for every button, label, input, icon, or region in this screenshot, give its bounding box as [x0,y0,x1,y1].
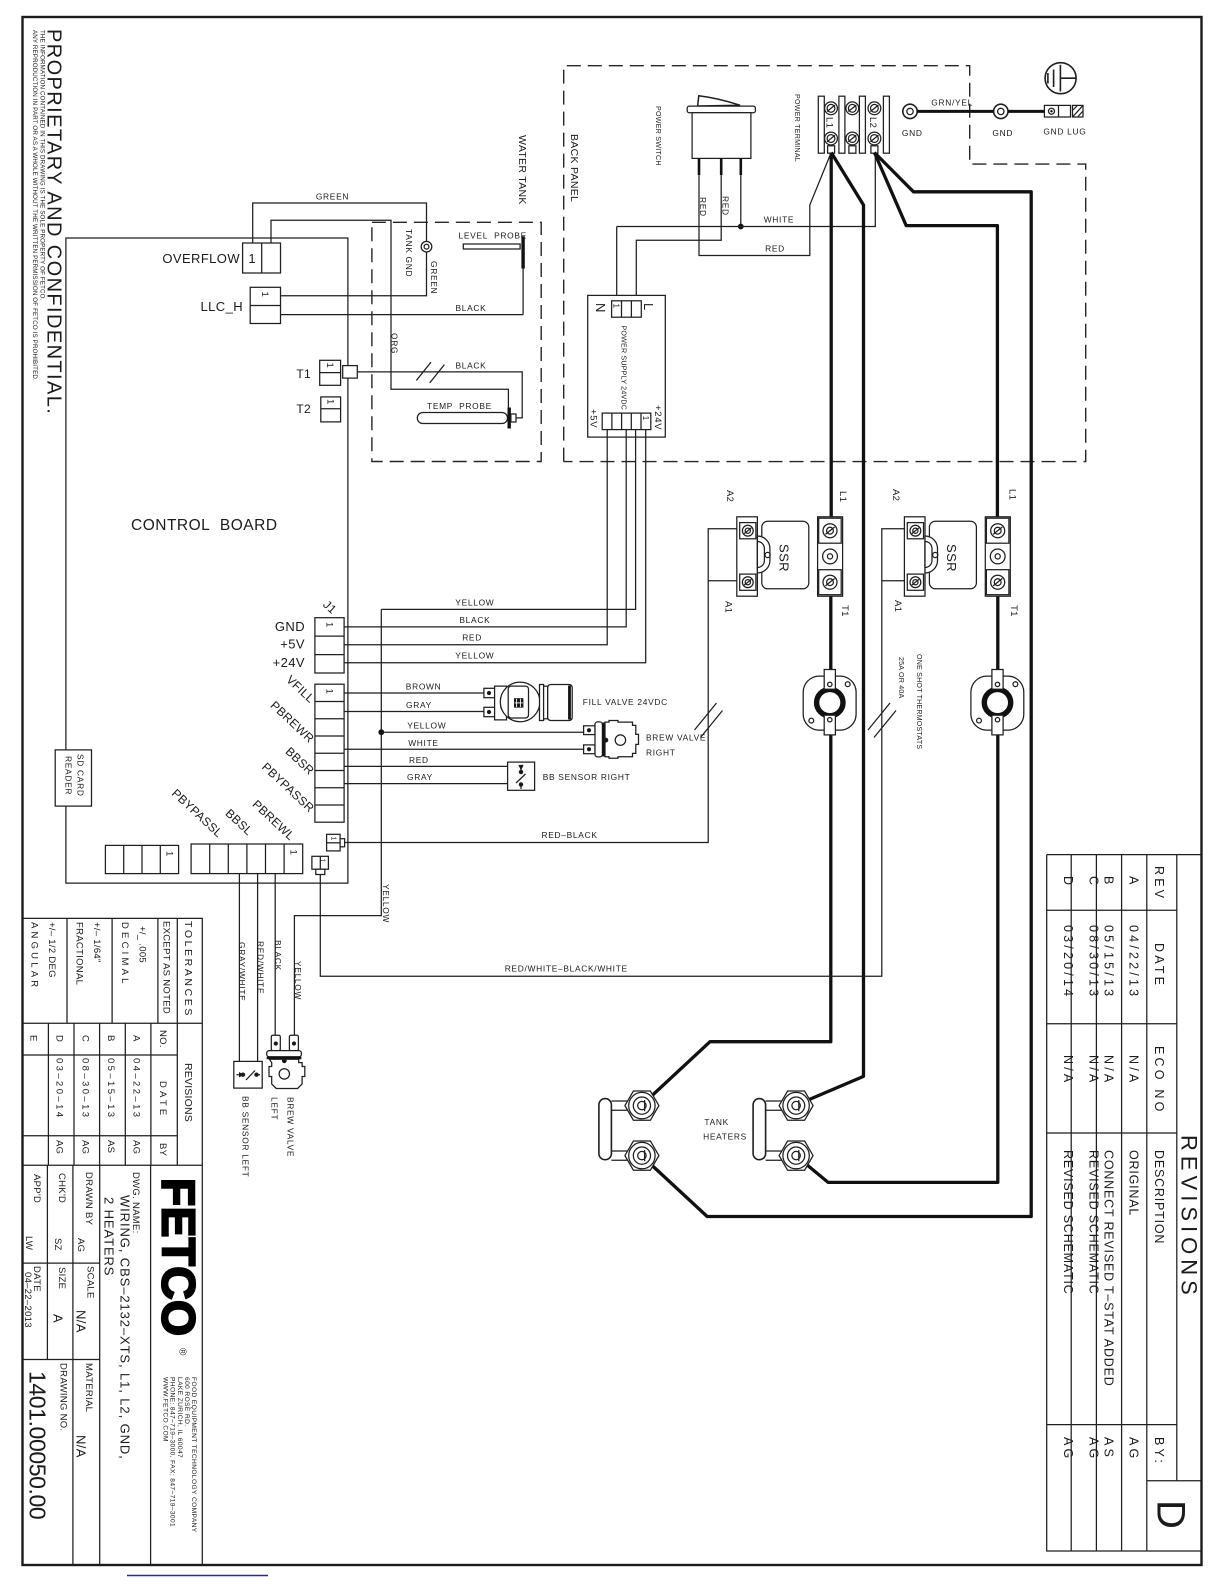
svg-text:BREW VALVE: BREW VALVE [286,1097,296,1157]
svg-text:OVERFLOW: OVERFLOW [162,251,240,266]
svg-text:RED–BLACK: RED–BLACK [542,830,598,840]
svg-text:TOLERANCES: TOLERANCES [182,921,194,1018]
svg-text:BY:: BY: [1152,1437,1166,1466]
svg-text:+5V: +5V [588,409,599,428]
svg-text:ECO NO: ECO NO [1152,1046,1166,1115]
svg-text:LAKE ZURICH, IL 60047: LAKE ZURICH, IL 60047 [176,1377,183,1458]
svg-text:AG: AG [1127,1437,1141,1461]
svg-text:FRACTIONAL: FRACTIONAL [74,922,85,985]
svg-text:REVISIONS: REVISIONS [182,1063,194,1122]
svg-text:A2: A2 [890,489,901,501]
svg-text:NO.: NO. [157,1030,168,1048]
svg-text:GREEN: GREEN [316,192,349,202]
svg-text:WHITE: WHITE [408,738,438,748]
svg-text:LW: LW [23,1236,34,1250]
svg-text:N/A: N/A [1127,1055,1141,1085]
svg-text:1: 1 [324,622,335,627]
svg-text:05–15–13: 05–15–13 [105,1058,116,1119]
svg-text:AG: AG [54,1140,65,1154]
svg-text:A2: A2 [724,490,735,502]
svg-text:1: 1 [611,304,620,309]
svg-text:BREW VALVE: BREW VALVE [646,733,706,743]
svg-text:1: 1 [324,363,335,368]
svg-text:ANGULAR: ANGULAR [29,922,40,990]
svg-text:L: L [641,303,656,311]
svg-text:LLC_H: LLC_H [201,299,243,314]
svg-text:+24V: +24V [273,655,305,670]
svg-text:AG: AG [79,1140,90,1154]
svg-text:05/15/13: 05/15/13 [1101,925,1115,999]
svg-text:MATERIAL: MATERIAL [83,1363,94,1412]
svg-text:DRAWN BY: DRAWN BY [83,1172,94,1226]
svg-text:AG: AG [1086,1437,1100,1461]
svg-text:FETCO: FETCO [153,1178,205,1336]
svg-text:DRAWING NO.: DRAWING NO. [58,1363,69,1431]
svg-text:FOOD EQUIPMENT TECHNOLOGY COMP: FOOD EQUIPMENT TECHNOLOGY COMPANY [190,1377,197,1533]
svg-text:SSR: SSR [777,544,792,572]
svg-text:1401.00050.00: 1401.00050.00 [25,1371,51,1519]
svg-text:AG: AG [1061,1437,1075,1461]
svg-text:A: A [1127,876,1141,888]
svg-text:ONE SHOT THERMOSTATS: ONE SHOT THERMOSTATS [915,654,923,749]
svg-text:N/A: N/A [1086,1055,1100,1085]
svg-text:WIRING, CBS–2132–XTS, L1, L2,: WIRING, CBS–2132–XTS, L1, L2, GND, [118,1195,133,1460]
svg-text:L2: L2 [867,117,878,128]
svg-text:1: 1 [248,251,255,266]
svg-text:TEMP PROBE: TEMP PROBE [427,401,492,411]
svg-text:+24V: +24V [652,405,663,430]
svg-text:+/_ .005: +/_ .005 [137,926,148,963]
svg-text:L1: L1 [824,117,835,128]
svg-text:GREEN: GREEN [429,261,439,294]
svg-text:25A OR 40A: 25A OR 40A [897,657,905,699]
svg-text:HEATERS: HEATERS [703,1132,747,1142]
svg-text:RED: RED [462,633,482,643]
svg-text:03/20/14: 03/20/14 [1061,925,1075,999]
svg-text:FILL VALVE 24VDC: FILL VALVE 24VDC [583,697,668,707]
svg-text:PHONE: 847–719–3000, FAX: 847–: PHONE: 847–719–3000, FAX: 847–719–3001 [169,1377,176,1527]
svg-text:04–22–2013: 04–22–2013 [22,1272,33,1328]
svg-text:EXCEPT AS NOTED: EXCEPT AS NOTED [161,921,172,1014]
svg-text:AG: AG [75,1238,86,1252]
svg-text:WWW.FETCO.COM: WWW.FETCO.COM [161,1377,168,1442]
svg-text:SSR: SSR [944,544,959,572]
svg-text:A: A [51,1314,66,1323]
svg-text:D: D [1149,1500,1193,1529]
svg-text:YELLOW: YELLOW [455,598,494,608]
svg-text:REVISED SCHEMATIC: REVISED SCHEMATIC [1061,1150,1075,1295]
svg-text:GRAY/WHITE: GRAY/WHITE [237,942,247,1001]
svg-text:REVISED SCHEMATIC: REVISED SCHEMATIC [1086,1150,1100,1295]
svg-text:TANK GND: TANK GND [404,229,414,277]
svg-text:N: N [593,303,608,313]
svg-text:RED: RED [765,244,785,254]
svg-text:C: C [1086,876,1100,888]
svg-text:E: E [28,1035,39,1042]
svg-text:GND: GND [275,619,305,634]
svg-text:POWER SUPPLY 24VDC: POWER SUPPLY 24VDC [619,326,627,411]
svg-text:GND: GND [992,128,1013,138]
svg-text:WATER TANK: WATER TANK [516,135,528,205]
svg-text:1: 1 [288,850,299,855]
svg-text:YELLOW: YELLOW [455,651,494,661]
svg-text:TANK: TANK [704,1117,729,1127]
svg-text:®: ® [177,1348,188,1356]
svg-text:BY: BY [157,1143,168,1157]
svg-text:AS: AS [1101,1437,1115,1460]
svg-text:AG: AG [131,1140,142,1154]
svg-text:1: 1 [330,837,337,841]
svg-text:BB SENSOR LEFT: BB SENSOR LEFT [241,1096,251,1177]
svg-text:YELLOW: YELLOW [407,721,446,731]
svg-text:GRAY: GRAY [406,700,432,710]
svg-text:CONTROL BOARD: CONTROL BOARD [131,517,278,534]
svg-text:1: 1 [319,859,326,863]
svg-text:04/22/13: 04/22/13 [1127,925,1141,999]
svg-text:READER: READER [64,756,74,795]
svg-text:RED: RED [409,755,429,765]
svg-text:A1: A1 [723,601,734,613]
svg-text:2 HEATERS: 2 HEATERS [102,1197,117,1276]
svg-text:REVISIONS: REVISIONS [1177,1135,1202,1300]
svg-text:C: C [79,1035,90,1042]
svg-text:SD CARD: SD CARD [76,754,86,797]
svg-text:D: D [54,1035,65,1042]
svg-text:1: 1 [641,416,650,421]
svg-text:N/A: N/A [73,1435,88,1458]
svg-text:1: 1 [324,689,335,694]
svg-text:LEFT: LEFT [270,1097,280,1120]
svg-text:08/30/13: 08/30/13 [1086,925,1100,999]
svg-text:RED/WHITE: RED/WHITE [255,941,265,994]
svg-text:04–22–13: 04–22–13 [131,1058,142,1119]
svg-text:BLACK: BLACK [459,615,490,625]
svg-text:BROWN: BROWN [406,682,442,692]
svg-text:1: 1 [164,851,175,856]
svg-text:BLACK: BLACK [456,303,487,313]
svg-text:RIGHT: RIGHT [646,748,676,758]
svg-text:1: 1 [325,399,336,404]
svg-text:+5V: +5V [280,637,305,652]
svg-text:A: A [131,1035,142,1042]
svg-text:YELLOW: YELLOW [293,961,303,1000]
svg-text:APP'D: APP'D [31,1174,42,1203]
svg-text:+/– 1/2 DEG: +/– 1/2 DEG [46,922,57,978]
svg-text:CHK'D: CHK'D [56,1173,67,1203]
svg-text:D: D [1061,876,1075,888]
svg-text:DATE: DATE [1152,943,1166,988]
svg-text:T1: T1 [296,367,311,381]
svg-text:DATE: DATE [157,1081,168,1118]
svg-text:T2: T2 [296,402,311,416]
svg-text:600 ROSE RD.: 600 ROSE RD. [183,1377,190,1427]
svg-text:GRAY: GRAY [407,772,433,782]
svg-text:SCALE: SCALE [84,1266,95,1299]
svg-text:AS: AS [105,1140,116,1153]
svg-text:B: B [1101,876,1115,888]
svg-text:ANY REPRODUCTION IN PART OR AS: ANY REPRODUCTION IN PART OR AS A WHOLE W… [31,30,38,381]
svg-text:B: B [105,1035,116,1042]
svg-text:WHITE: WHITE [764,215,794,225]
svg-text:T1: T1 [839,605,850,617]
svg-text:DECIMAL: DECIMAL [119,922,130,987]
svg-text:N/A: N/A [1101,1055,1115,1085]
svg-text:BLACK: BLACK [456,361,487,371]
svg-text:POWER SWITCH: POWER SWITCH [654,106,662,166]
svg-text:REV: REV [1152,866,1166,901]
svg-text:GRN/YEL: GRN/YEL [931,98,973,108]
svg-text:N/A: N/A [1061,1055,1075,1085]
svg-text:08–30–13: 08–30–13 [79,1058,90,1119]
svg-text:L1: L1 [1006,489,1017,500]
svg-text:BACK PANEL: BACK PANEL [568,134,580,202]
svg-text:CONNECT REVISED T–STAT ADDED: CONNECT REVISED T–STAT ADDED [1101,1150,1115,1387]
svg-text:LEVEL PROBE: LEVEL PROBE [459,231,527,241]
svg-text:YELLOW: YELLOW [381,884,391,923]
svg-text:03–20–14: 03–20–14 [54,1058,65,1119]
svg-text:GND: GND [902,128,923,138]
svg-text:N/A: N/A [73,1310,88,1333]
svg-text:SZ: SZ [52,1238,63,1251]
svg-text:DESCRIPTION: DESCRIPTION [1152,1150,1166,1244]
svg-text:GND LUG: GND LUG [1043,127,1086,137]
svg-text:BB SENSOR RIGHT: BB SENSOR RIGHT [543,772,631,782]
svg-text:THE INFORMATION CONTAINED IN T: THE INFORMATION CONTAINED IN THIS DRAWIN… [39,30,46,301]
svg-text:T1: T1 [1008,605,1019,617]
svg-text:ORIGINAL: ORIGINAL [1127,1150,1141,1216]
svg-text:BLACK: BLACK [273,940,283,971]
svg-text:ORG: ORG [390,333,400,354]
svg-text:SIZE: SIZE [56,1267,67,1289]
svg-text:+/– 1/64": +/– 1/64" [91,922,102,963]
svg-text:L1: L1 [837,491,848,502]
svg-text:POWER TERMINAL: POWER TERMINAL [793,94,801,162]
svg-text:1: 1 [259,292,270,297]
svg-text:A1: A1 [892,600,903,612]
svg-text:RED/WHITE–BLACK/WHITE: RED/WHITE–BLACK/WHITE [505,964,628,974]
